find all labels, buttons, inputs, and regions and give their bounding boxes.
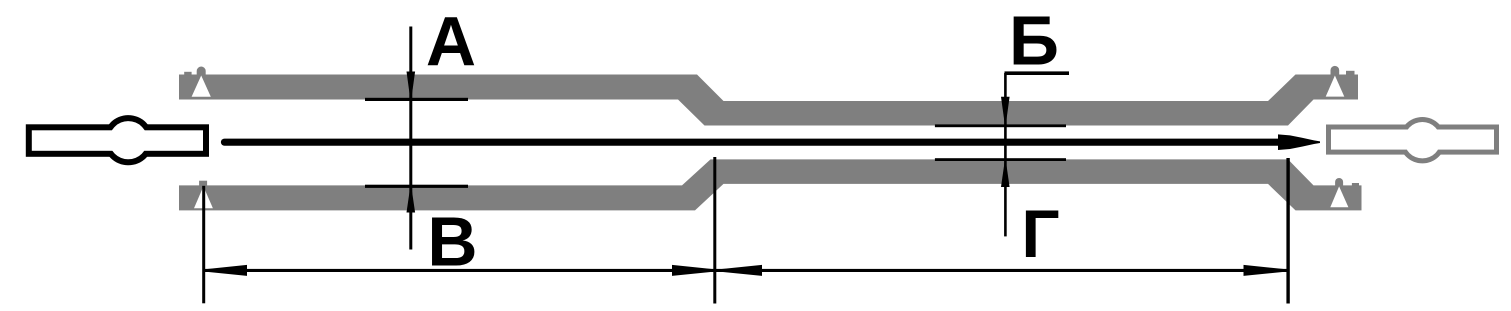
dimension B leader vertical line [1004, 73, 1007, 236]
dimension G left arrow [721, 265, 763, 276]
top roadside band [179, 75, 1358, 126]
dimension V line [205, 269, 714, 272]
dimension V left arrow [206, 265, 247, 276]
dimension A down arrow [407, 72, 416, 100]
svg-text:А: А [426, 3, 476, 81]
extension line middle [713, 157, 716, 304]
dimension B up arrow [1001, 161, 1010, 188]
extension line right [1286, 158, 1289, 304]
kilometre-post tab right-top [1346, 71, 1355, 75]
dimension G right arrow [1244, 265, 1285, 276]
dimension A lower tick [365, 185, 468, 188]
kilometre-post dome right-bottom [1335, 178, 1343, 186]
svg-text:Б: Б [1009, 2, 1059, 80]
road axis centerline [225, 139, 1281, 146]
dimension A upper tick [365, 98, 468, 101]
kilometre-post cap left-bottom [199, 181, 207, 186]
right passing-loop symbol [1326, 117, 1499, 163]
bottom roadside band [179, 159, 1362, 210]
kilometre-post triangle left-top [192, 76, 211, 97]
dimension A up arrow [407, 187, 416, 213]
dimension V right arrow [672, 265, 713, 276]
svg-text:Г: Г [1021, 197, 1059, 272]
dimension A extension line (vertical) [409, 27, 412, 250]
kilometre-post dome right-top [1331, 66, 1340, 76]
kilometre-post triangle left-bottom [194, 186, 213, 208]
dimension B lower tick [935, 158, 1066, 161]
kilometre-post tab right-bottom [1352, 183, 1359, 186]
kilometre-post tab left-top [184, 72, 191, 76]
axis arrowhead [1278, 134, 1320, 150]
dimension B leader shelf [1005, 71, 1070, 75]
dimension G line [716, 269, 1288, 272]
kilometre-post triangle right-top [1326, 76, 1345, 97]
kilometre-post dome left-top [197, 67, 206, 76]
extension line left [202, 186, 205, 303]
kilometre-post triangle right-bottom [1330, 186, 1348, 207]
left passing-loop symbol [26, 115, 209, 165]
dimension B upper tick [935, 124, 1066, 127]
svg-text:В: В [427, 203, 477, 281]
dimension B down arrow [1001, 97, 1010, 125]
